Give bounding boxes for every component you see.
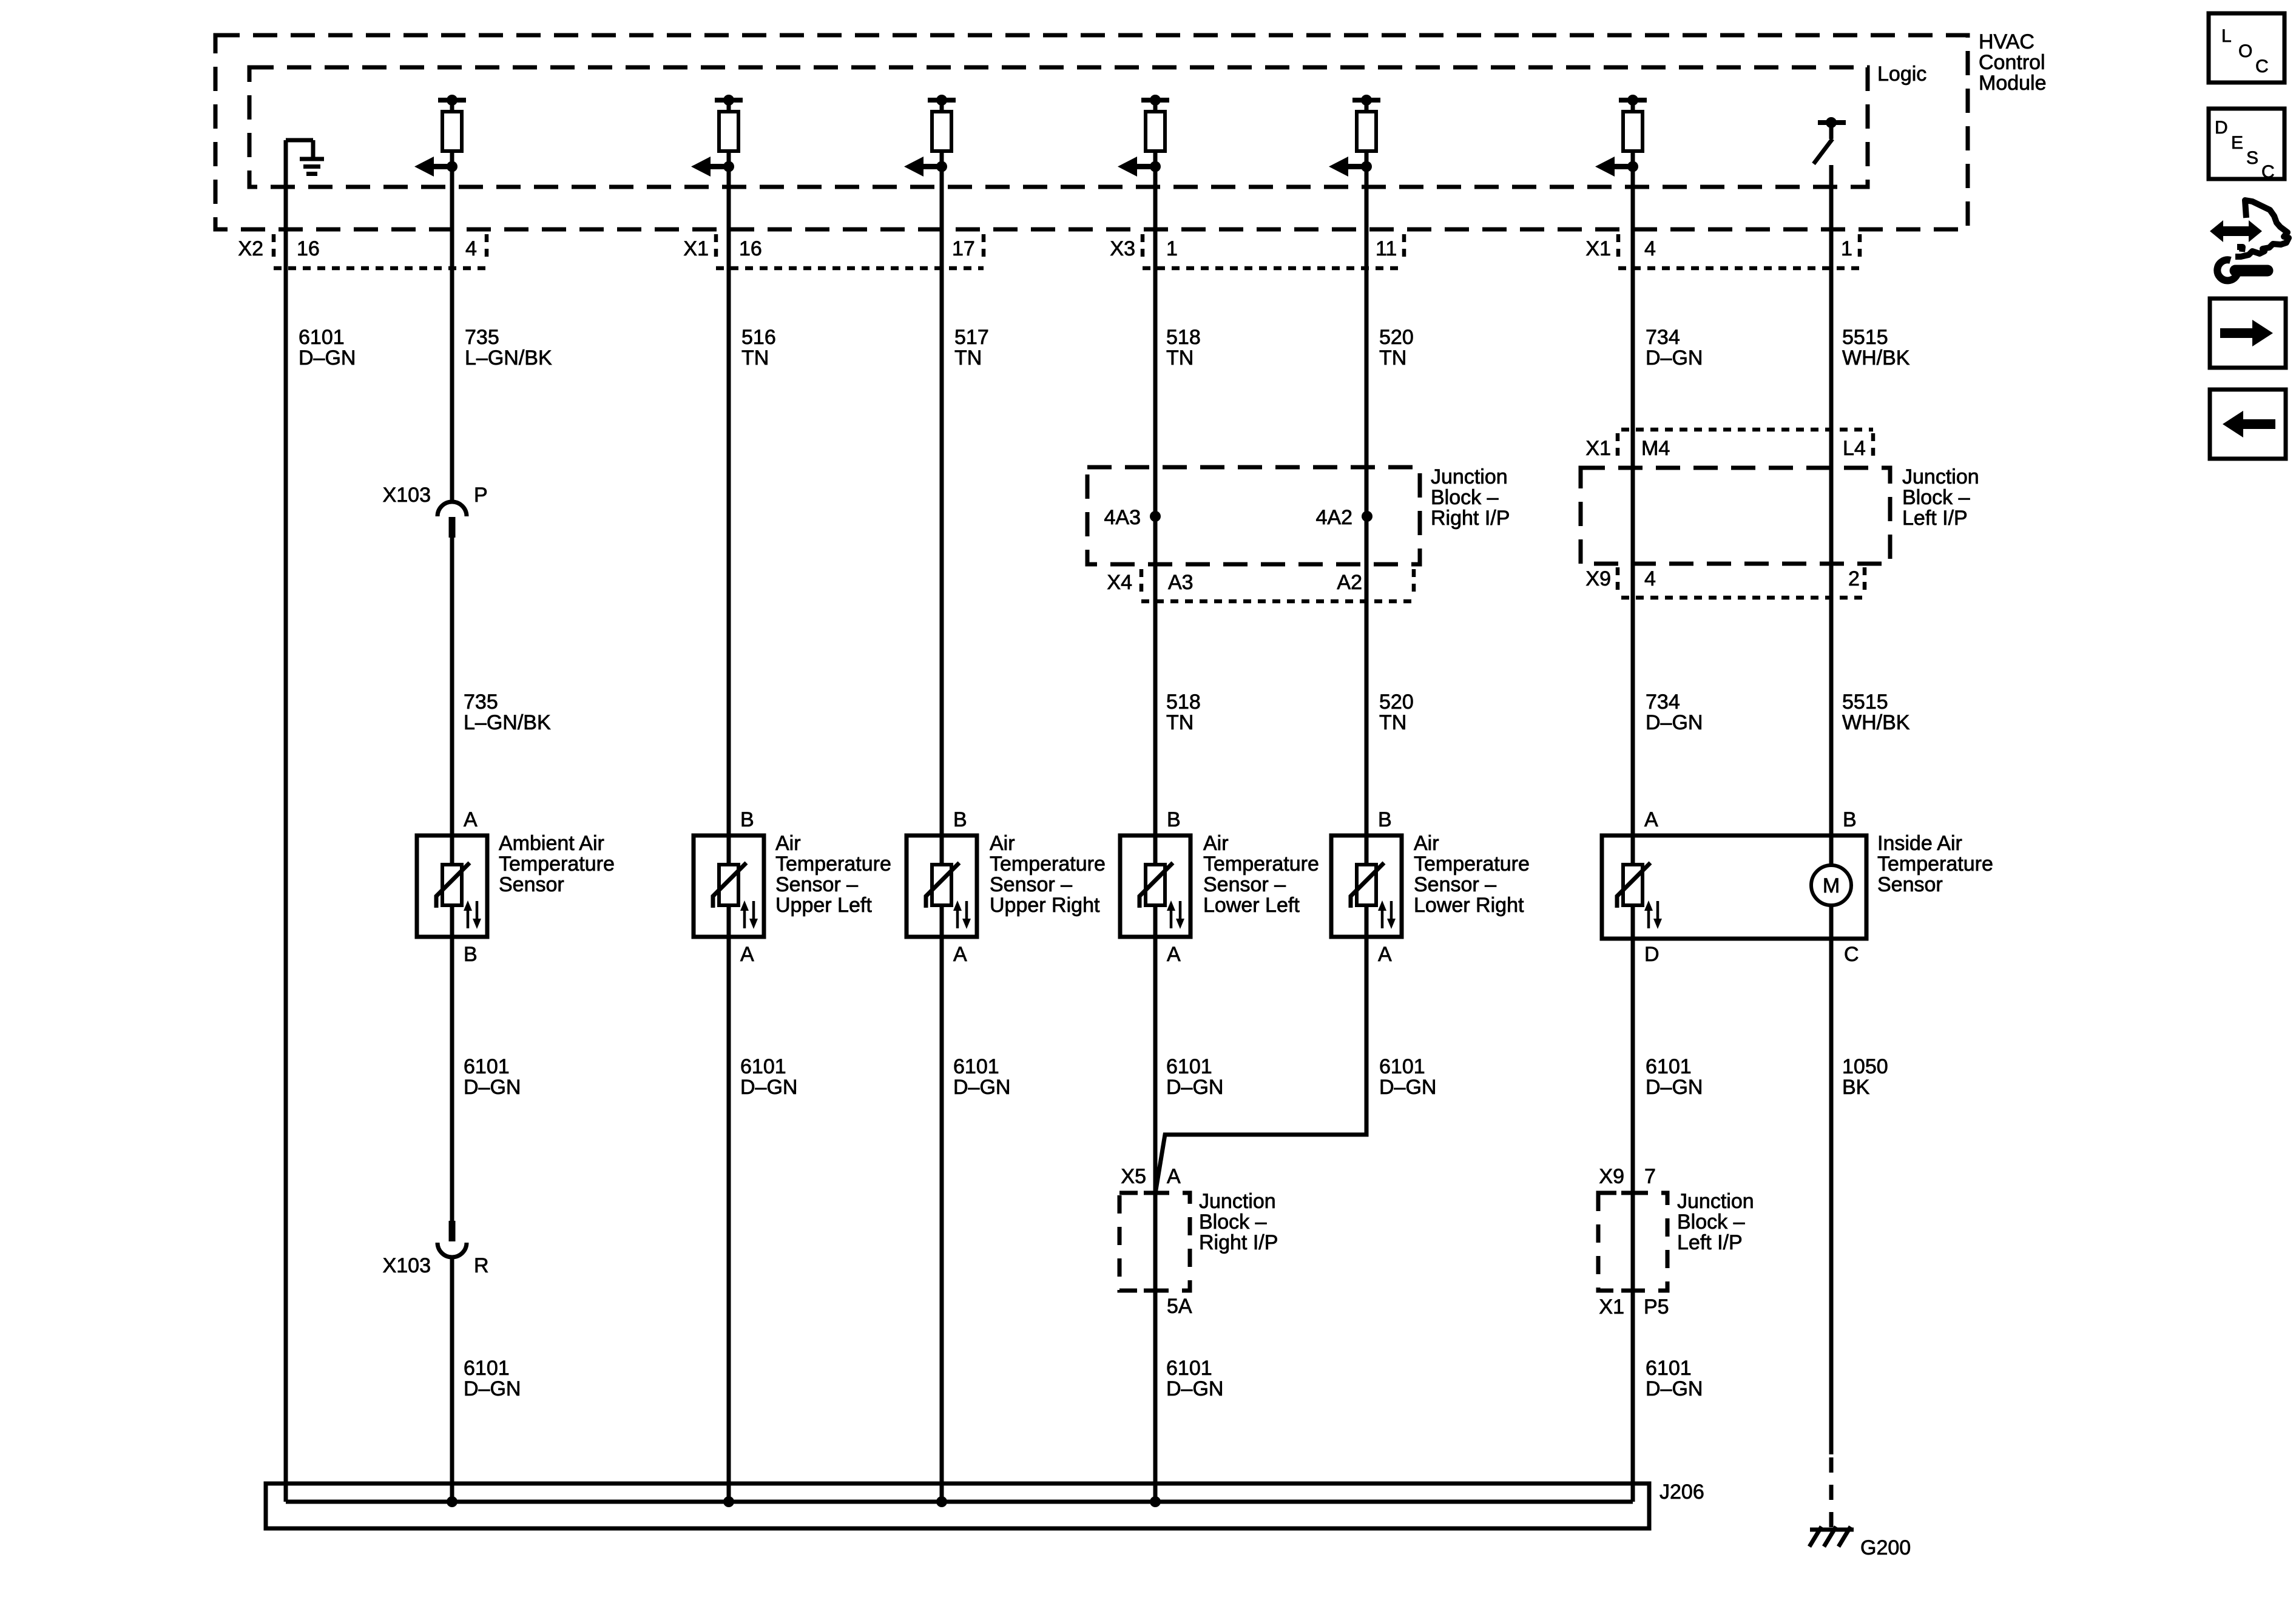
svg-text:6101: 6101	[1646, 1055, 1692, 1078]
svg-text:G200: G200	[1860, 1536, 1911, 1559]
svg-text:Air: Air	[990, 832, 1015, 855]
svg-text:A: A	[1167, 1165, 1181, 1188]
svg-text:734: 734	[1646, 690, 1680, 714]
svg-text:TN: TN	[1166, 346, 1194, 370]
svg-text:M4: M4	[1641, 437, 1670, 460]
svg-text:Inside Air: Inside Air	[1877, 832, 1962, 855]
svg-text:X5: X5	[1121, 1165, 1146, 1188]
svg-text:A: A	[1378, 943, 1392, 966]
svg-text:Sensor: Sensor	[1877, 873, 1943, 896]
svg-text:Block –: Block –	[1199, 1210, 1267, 1234]
svg-text:X9: X9	[1585, 567, 1611, 590]
svg-text:735: 735	[464, 690, 498, 714]
svg-text:520: 520	[1379, 326, 1414, 349]
svg-text:HVAC: HVAC	[1979, 30, 2034, 53]
svg-text:B: B	[1167, 808, 1181, 831]
svg-text:Junction: Junction	[1677, 1190, 1754, 1213]
svg-text:4: 4	[1644, 567, 1656, 590]
svg-text:Temperature: Temperature	[1203, 852, 1319, 876]
svg-text:517: 517	[954, 326, 989, 349]
svg-text:6101: 6101	[299, 326, 345, 349]
svg-text:Sensor –: Sensor –	[775, 873, 858, 896]
svg-text:TN: TN	[1166, 711, 1194, 734]
svg-text:Right I/P: Right I/P	[1199, 1231, 1278, 1254]
svg-text:Junction: Junction	[1902, 465, 1979, 488]
svg-text:Air: Air	[1203, 832, 1229, 855]
svg-text:Temperature: Temperature	[1414, 852, 1530, 876]
svg-text:X9: X9	[1599, 1165, 1624, 1188]
svg-text:7: 7	[1644, 1165, 1656, 1188]
svg-text:TN: TN	[741, 346, 769, 370]
svg-text:11: 11	[1376, 237, 1397, 260]
svg-text:A: A	[740, 943, 754, 966]
svg-text:Upper Left: Upper Left	[775, 894, 872, 917]
svg-text:6101: 6101	[464, 1357, 510, 1380]
svg-text:X1: X1	[1585, 437, 1611, 460]
svg-text:WH/BK: WH/BK	[1842, 346, 1910, 370]
svg-text:D–GN: D–GN	[953, 1076, 1010, 1099]
svg-text:X3: X3	[1110, 237, 1135, 260]
svg-text:S: S	[2246, 148, 2258, 168]
svg-text:17: 17	[952, 237, 975, 260]
svg-text:5515: 5515	[1842, 326, 1888, 349]
svg-text:D–GN: D–GN	[1379, 1076, 1436, 1099]
svg-text:6101: 6101	[1379, 1055, 1425, 1078]
svg-text:A: A	[953, 943, 967, 966]
svg-text:L–GN/BK: L–GN/BK	[464, 711, 551, 734]
svg-text:Left I/P: Left I/P	[1677, 1231, 1743, 1254]
svg-text:4A2: 4A2	[1316, 506, 1353, 529]
svg-text:A: A	[1167, 943, 1181, 966]
svg-text:B: B	[464, 943, 478, 966]
svg-text:Block –: Block –	[1431, 486, 1499, 509]
svg-text:D–GN: D–GN	[299, 346, 356, 370]
svg-text:1: 1	[1841, 237, 1852, 260]
svg-text:D–GN: D–GN	[1166, 1377, 1223, 1400]
svg-text:1: 1	[1166, 237, 1178, 260]
svg-text:5A: 5A	[1167, 1295, 1192, 1318]
svg-text:Temperature: Temperature	[775, 852, 891, 876]
svg-text:4: 4	[1644, 237, 1656, 260]
svg-text:16: 16	[297, 237, 320, 260]
svg-text:Sensor –: Sensor –	[990, 873, 1072, 896]
svg-text:X1: X1	[1599, 1295, 1624, 1318]
svg-text:Left I/P: Left I/P	[1902, 507, 1968, 530]
svg-text:A2: A2	[1337, 571, 1362, 594]
svg-text:L: L	[2221, 26, 2232, 46]
svg-text:D: D	[1644, 943, 1660, 966]
svg-text:Junction: Junction	[1431, 465, 1508, 488]
svg-text:Temperature: Temperature	[1877, 852, 1993, 876]
svg-text:Lower Left: Lower Left	[1203, 894, 1300, 917]
svg-text:Air: Air	[775, 832, 801, 855]
svg-text:6101: 6101	[953, 1055, 999, 1078]
svg-text:2: 2	[1848, 567, 1860, 590]
svg-text:16: 16	[739, 237, 762, 260]
svg-text:D–GN: D–GN	[1646, 1377, 1703, 1400]
svg-text:TN: TN	[1379, 711, 1406, 734]
svg-text:D: D	[2215, 118, 2228, 138]
svg-text:6101: 6101	[1646, 1357, 1692, 1380]
svg-text:A: A	[1644, 808, 1658, 831]
svg-text:4A3: 4A3	[1104, 506, 1141, 529]
svg-text:TN: TN	[954, 346, 982, 370]
svg-text:Air: Air	[1414, 832, 1439, 855]
svg-text:D–GN: D–GN	[464, 1076, 521, 1099]
svg-text:734: 734	[1646, 326, 1680, 349]
svg-text:Temperature: Temperature	[499, 852, 615, 876]
svg-text:6101: 6101	[740, 1055, 786, 1078]
svg-text:X1: X1	[683, 237, 709, 260]
svg-text:D–GN: D–GN	[740, 1076, 797, 1099]
svg-text:1050: 1050	[1842, 1055, 1888, 1078]
svg-text:D–GN: D–GN	[1646, 1076, 1703, 1099]
svg-text:6101: 6101	[464, 1055, 510, 1078]
svg-text:Block –: Block –	[1677, 1210, 1745, 1234]
svg-text:WH/BK: WH/BK	[1842, 711, 1910, 734]
svg-text:Sensor –: Sensor –	[1203, 873, 1286, 896]
svg-text:O: O	[2238, 41, 2252, 61]
svg-text:A: A	[464, 808, 478, 831]
svg-text:X103: X103	[383, 484, 431, 507]
svg-text:X1: X1	[1585, 237, 1611, 260]
svg-text:P: P	[474, 484, 488, 507]
svg-text:D–GN: D–GN	[1166, 1076, 1223, 1099]
svg-text:B: B	[1378, 808, 1392, 831]
svg-text:B: B	[953, 808, 967, 831]
svg-text:L–GN/BK: L–GN/BK	[465, 346, 552, 370]
svg-text:D–GN: D–GN	[464, 1377, 521, 1400]
svg-text:Upper Right: Upper Right	[990, 894, 1100, 917]
svg-text:L4: L4	[1843, 437, 1866, 460]
svg-text:BK: BK	[1842, 1076, 1870, 1099]
svg-text:C: C	[2255, 56, 2269, 76]
svg-text:518: 518	[1166, 690, 1201, 714]
svg-text:Control: Control	[1979, 51, 2045, 74]
svg-text:Block –: Block –	[1902, 486, 1970, 509]
svg-text:X2: X2	[238, 237, 263, 260]
svg-text:D–GN: D–GN	[1646, 711, 1703, 734]
svg-text:Right I/P: Right I/P	[1431, 507, 1510, 530]
svg-text:518: 518	[1166, 326, 1201, 349]
svg-text:516: 516	[741, 326, 776, 349]
svg-text:Module: Module	[1979, 72, 2047, 95]
svg-text:520: 520	[1379, 690, 1414, 714]
svg-text:C: C	[1844, 943, 1859, 966]
svg-text:Lower Right: Lower Right	[1414, 894, 1524, 917]
svg-text:4: 4	[465, 237, 477, 260]
svg-text:A3: A3	[1168, 571, 1194, 594]
svg-text:E: E	[2231, 133, 2243, 153]
svg-text:6101: 6101	[1166, 1055, 1212, 1078]
svg-text:Temperature: Temperature	[990, 852, 1106, 876]
svg-text:X103: X103	[383, 1254, 431, 1277]
svg-text:Logic: Logic	[1877, 62, 1926, 86]
svg-text:Sensor –: Sensor –	[1414, 873, 1496, 896]
svg-text:X4: X4	[1107, 571, 1132, 594]
svg-text:Junction: Junction	[1199, 1190, 1276, 1213]
svg-text:B: B	[740, 808, 754, 831]
svg-text:P5: P5	[1644, 1295, 1669, 1318]
svg-text:Sensor: Sensor	[499, 873, 564, 896]
svg-text:735: 735	[465, 326, 499, 349]
svg-text:TN: TN	[1379, 346, 1406, 370]
svg-text:J206: J206	[1660, 1480, 1704, 1504]
svg-text:C: C	[2261, 162, 2275, 182]
svg-text:M: M	[1823, 874, 1840, 897]
svg-text:B: B	[1843, 808, 1857, 831]
svg-text:D–GN: D–GN	[1646, 346, 1703, 370]
svg-text:6101: 6101	[1166, 1357, 1212, 1380]
svg-text:5515: 5515	[1842, 690, 1888, 714]
svg-text:Ambient Air: Ambient Air	[499, 832, 604, 855]
svg-text:R: R	[474, 1254, 489, 1277]
